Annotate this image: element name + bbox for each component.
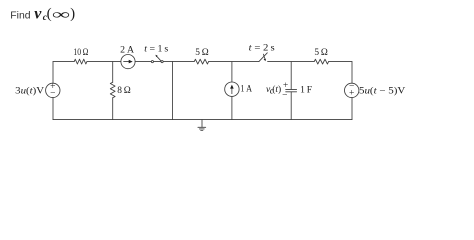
- wire bottom: [53, 119, 352, 121]
- wire 8ohm branch lower: [112, 98, 114, 120]
- svg-text:+: +: [349, 89, 354, 99]
- svg-text:5u(t − 5)V: 5u(t − 5)V: [359, 85, 405, 96]
- wire 2A source through switch S1 to node B: [135, 61, 172, 63]
- wire 5ohm to switch S2: [209, 61, 259, 63]
- svg-text:(: (: [47, 6, 52, 22]
- current source 1A arrow: [230, 85, 234, 94]
- svg-text:t = 2 s: t = 2 s: [249, 43, 275, 53]
- svg-text:3u(t)V: 3u(t)V: [15, 85, 44, 96]
- wire right vertical upper: [351, 62, 353, 84]
- resistor 5 ohm left: [194, 59, 208, 64]
- svg-text:+: +: [283, 81, 288, 91]
- capacitor 1F bottom plate: [286, 91, 297, 93]
- current source 1A circle: [225, 82, 239, 96]
- voltage source 3u(t)V circle: [46, 83, 60, 97]
- svg-text:Find: Find: [10, 11, 30, 22]
- svg-text:): ): [70, 6, 75, 22]
- current source 2A arrow: [123, 60, 132, 64]
- wire 1A branch lower: [231, 96, 233, 119]
- svg-text:8 Ω: 8 Ω: [117, 86, 131, 96]
- svg-text:−: −: [282, 91, 287, 101]
- ground bar 1: [198, 126, 206, 128]
- svg-text:5 Ω: 5 Ω: [195, 48, 209, 58]
- switch S2 arrowhead: [264, 58, 266, 61]
- svg-text:v: v: [34, 6, 42, 23]
- ground bar 2: [199, 128, 204, 130]
- wire 8ohm branch upper: [112, 62, 114, 83]
- wire 1A branch upper: [231, 62, 233, 82]
- svg-text:t = 1 s: t = 1 s: [144, 45, 168, 55]
- switch S2 blade: [259, 53, 267, 62]
- svg-text:∞: ∞: [52, 7, 70, 22]
- switch S2 closing arrow line: [264, 54, 265, 58]
- voltage source 5u(t-5)V circle: [345, 83, 359, 97]
- wire 10ohm to 2A source: [87, 61, 121, 63]
- wire capacitor branch upper: [290, 62, 292, 90]
- switch S1 terminal left: [151, 61, 153, 63]
- resistor 8 ohm vertical: [110, 82, 115, 98]
- capacitor 1F top plate: [286, 88, 297, 90]
- current source 2A circle: [121, 55, 135, 69]
- svg-text:10 Ω: 10 Ω: [73, 48, 88, 58]
- switch S1 terminal right: [161, 61, 163, 63]
- wire right vertical lower: [351, 98, 353, 120]
- wire top-right segment: [329, 61, 352, 63]
- wire left vertical lower: [52, 98, 54, 120]
- wire top-left segment: [53, 61, 74, 63]
- wire left vertical upper: [52, 62, 54, 84]
- ground bar 3: [201, 130, 203, 132]
- svg-text:1 F: 1 F: [300, 85, 312, 95]
- switch S1 opening arrow line: [157, 56, 161, 61]
- svg-text:(t): (t): [272, 84, 281, 95]
- svg-text:−: −: [50, 88, 55, 98]
- wire node B to 5ohm resistor: [173, 61, 195, 63]
- resistor 5 ohm right: [314, 59, 328, 64]
- svg-text:2 A: 2 A: [120, 46, 134, 56]
- svg-text:5 Ω: 5 Ω: [314, 48, 328, 58]
- wire middle branch node B: [172, 62, 174, 120]
- wire switch S2 to 5ohm right: [268, 61, 315, 63]
- ground stub: [201, 120, 203, 128]
- switch S1 arrowhead: [155, 55, 157, 57]
- wire capacitor branch lower: [290, 92, 292, 120]
- svg-text:1 A: 1 A: [240, 85, 252, 95]
- resistor 10 ohm: [74, 59, 87, 64]
